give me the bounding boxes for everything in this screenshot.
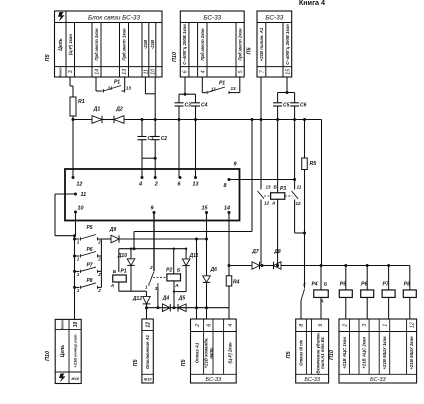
- svg-text:Цепь: Цепь: [58, 38, 64, 50]
- svg-text:Р7: Р7: [86, 262, 92, 268]
- svg-text:2: 2: [97, 272, 101, 277]
- svg-text:Д10: Д10: [117, 253, 127, 259]
- svg-text:Ж10: Ж10: [143, 378, 153, 382]
- svg-text:Р2: Р2: [166, 268, 172, 274]
- svg-text:3: 3: [68, 70, 74, 73]
- svg-text:12: 12: [264, 201, 270, 206]
- svg-text:13: 13: [230, 86, 236, 91]
- svg-text:Р8: Р8: [86, 278, 92, 284]
- svg-text:Р3: Р3: [280, 186, 286, 192]
- svg-text:+21В АЦС 2кан: +21В АЦС 2кан: [362, 337, 367, 369]
- svg-text:2: 2: [154, 182, 158, 188]
- svg-text:Р5: Р5: [86, 225, 92, 231]
- svg-text:+21В АЦС 1кан: +21В АЦС 1кан: [342, 337, 347, 369]
- svg-text:П10: П10: [329, 350, 335, 360]
- svg-text:Р8: Р8: [404, 282, 410, 288]
- svg-text:15: 15: [202, 206, 209, 212]
- svg-text:8: 8: [224, 183, 227, 189]
- svg-text:Отказ III п/к: Отказ III п/к: [299, 339, 304, 366]
- svg-text:2: 2: [97, 240, 101, 245]
- svg-text:БС-33: БС-33: [370, 377, 387, 383]
- svg-text:9: 9: [318, 324, 324, 327]
- svg-text:4: 4: [138, 182, 142, 188]
- svg-text:Д2: Д2: [115, 107, 123, 113]
- svg-text:(Ц-Р) 2кан: (Ц-Р) 2кан: [228, 342, 233, 363]
- svg-text:Р1: Р1: [219, 81, 225, 87]
- svg-text:А: А: [174, 283, 179, 289]
- svg-text:2: 2: [97, 257, 101, 262]
- svg-text:3: 3: [362, 324, 368, 327]
- svg-text:Прд.мест 1кан: Прд.мест 1кан: [122, 28, 127, 61]
- svg-text:10: 10: [73, 322, 79, 328]
- svg-text:1: 1: [382, 324, 388, 327]
- svg-text:Прд.мест 2кан: Прд.мест 2кан: [238, 28, 243, 61]
- svg-text:Р7: Р7: [383, 282, 389, 288]
- svg-text:Б: Б: [177, 268, 181, 274]
- svg-text:Конт: Конт: [60, 320, 64, 329]
- svg-text:Р1: Р1: [114, 80, 120, 86]
- svg-text:П5: П5: [181, 359, 187, 367]
- svg-text:Р5: Р5: [340, 282, 346, 288]
- svg-text:А: А: [271, 201, 275, 206]
- svg-text:9: 9: [234, 162, 237, 168]
- svg-text:П5: П5: [133, 359, 139, 367]
- svg-text:13: 13: [193, 182, 199, 188]
- svg-text:Р6: Р6: [361, 282, 367, 288]
- svg-text:2: 2: [97, 288, 101, 293]
- svg-text:13: 13: [122, 69, 128, 75]
- svg-text:Д4: Д4: [162, 296, 170, 302]
- svg-text:Р6: Р6: [86, 247, 92, 253]
- svg-text:+21В МШУ 2кан: +21В МШУ 2кан: [409, 336, 414, 369]
- svg-text:Отключение А1: Отключение А1: [145, 334, 150, 369]
- svg-text:пит.А1 тлг.Вс: пит.А1 тлг.Вс: [320, 336, 325, 369]
- svg-text:6: 6: [183, 70, 189, 73]
- svg-text:C3: C3: [185, 103, 192, 109]
- svg-text:11: 11: [211, 87, 216, 92]
- svg-text:Д8: Д8: [273, 249, 281, 255]
- svg-text:R4: R4: [233, 280, 240, 286]
- svg-text:БС-33: БС-33: [304, 377, 321, 383]
- svg-text:C4: C4: [201, 103, 208, 109]
- svg-text:9: 9: [151, 206, 154, 212]
- svg-text:Б: Б: [324, 282, 328, 288]
- svg-text:Д9: Д9: [109, 227, 117, 233]
- svg-text:Отказ А1: Отказ А1: [195, 342, 200, 363]
- svg-text:А: А: [110, 283, 115, 289]
- svg-text:-21В: -21В: [143, 40, 148, 49]
- svg-text:14: 14: [224, 206, 230, 212]
- svg-text:8: 8: [299, 324, 305, 327]
- svg-text:Б: Б: [113, 269, 117, 275]
- svg-text:Блок связи БС-33: Блок связи БС-33: [88, 14, 141, 21]
- svg-text:R1: R1: [78, 99, 85, 105]
- svg-text:Книга 4: Книга 4: [299, 0, 325, 7]
- svg-text:10: 10: [78, 206, 84, 212]
- svg-text:Д7: Д7: [251, 249, 259, 255]
- svg-text:13: 13: [266, 185, 272, 190]
- svg-text:11: 11: [108, 86, 113, 91]
- svg-text:5: 5: [238, 70, 244, 73]
- svg-text:П10: П10: [45, 351, 51, 361]
- svg-text:Прд.мест 2кан: Прд.мест 2кан: [200, 28, 205, 61]
- svg-text:12: 12: [76, 182, 82, 188]
- svg-text:+21В питан. А1: +21В питан. А1: [259, 27, 264, 61]
- svg-text:П10: П10: [172, 52, 178, 62]
- svg-text:-21В: -21В: [150, 40, 155, 49]
- svg-text:4: 4: [228, 324, 234, 327]
- svg-text:П5: П5: [45, 54, 51, 62]
- svg-text:6: 6: [206, 324, 212, 327]
- svg-text:14: 14: [95, 69, 101, 75]
- svg-text:C~400Гц 200В 1кан: C~400Гц 200В 1кан: [182, 24, 187, 65]
- svg-text:C~400Гц 200В 1кан: C~400Гц 200В 1кан: [285, 24, 290, 65]
- svg-text:А: А: [319, 299, 324, 305]
- svg-text:+21В МШУ 1кан: +21В МШУ 1кан: [382, 336, 387, 369]
- svg-text:(Ц-Р) 1кан: (Ц-Р) 1кан: [68, 34, 73, 55]
- svg-text:12: 12: [146, 322, 152, 328]
- svg-text:R5: R5: [310, 161, 317, 167]
- svg-text:11: 11: [81, 192, 87, 198]
- svg-text:13: 13: [126, 86, 132, 91]
- svg-text:Д5: Д5: [178, 296, 186, 302]
- svg-text:+21В контр.пит: +21В контр.пит: [73, 334, 78, 368]
- svg-text:П5: П5: [286, 351, 292, 359]
- svg-text:Д1: Д1: [93, 107, 101, 113]
- svg-text:П5: П5: [247, 47, 253, 55]
- svg-text:Д12: Д12: [132, 296, 142, 302]
- svg-text:15: 15: [285, 69, 291, 75]
- svg-text:C6: C6: [300, 103, 307, 109]
- svg-text:4: 4: [200, 70, 206, 73]
- svg-text:Ж10: Ж10: [70, 377, 80, 381]
- svg-text:2: 2: [149, 265, 153, 270]
- svg-text:Конт: Конт: [59, 67, 63, 77]
- svg-text:Д6: Д6: [210, 267, 218, 273]
- svg-text:2: 2: [302, 282, 306, 287]
- svg-text:БС-33: БС-33: [206, 377, 223, 383]
- svg-text:БС-33: БС-33: [203, 14, 221, 21]
- svg-text:12: 12: [410, 322, 416, 328]
- svg-text:11: 11: [297, 185, 302, 190]
- svg-text:Р4: Р4: [311, 282, 317, 288]
- svg-text:2: 2: [342, 324, 348, 328]
- svg-text:C2: C2: [161, 136, 168, 142]
- svg-text:Р1: Р1: [120, 269, 126, 275]
- svg-text:2: 2: [195, 324, 201, 328]
- svg-text:БС-33: БС-33: [265, 14, 283, 21]
- svg-text:Цепь: Цепь: [60, 345, 66, 357]
- svg-text:C5: C5: [283, 103, 290, 109]
- svg-text:12: 12: [296, 201, 302, 206]
- svg-text:Прд.мест 1кан: Прд.мест 1кан: [94, 28, 99, 61]
